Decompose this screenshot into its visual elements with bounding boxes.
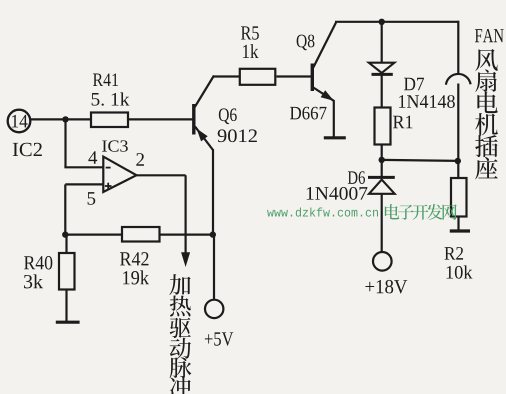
- ground below Q8 emitter: [324, 136, 346, 139]
- pin 4 label: [88, 151, 97, 164]
- resistor R1: [375, 108, 391, 145]
- transistor Q8 (D667 NPN): [311, 64, 314, 92]
- node C junction rail right (+5V / Q6 emitter): [210, 231, 216, 237]
- terminal: +5V supply: [205, 300, 223, 318]
- wire: node A down to IC3 pin 4: [64, 119, 66, 168]
- wire: Q6 emitter to +5V rail: [212, 149, 214, 235]
- wire: top rail down to fan socket: [457, 21, 459, 74]
- label IC2: [13, 143, 42, 156]
- diode D6 1N4007: [381, 160, 383, 177]
- node A junction at pin14 wire: [62, 116, 68, 122]
- label FAN: [475, 29, 504, 42]
- wire: IC3 output to heater-pulse arrow: [136, 174, 186, 176]
- resistor R5: [240, 69, 275, 85]
- node D junction top rail: [379, 19, 385, 25]
- watermark site name: [385, 204, 399, 219]
- label (vertical): fan motor socket chinese: [475, 49, 497, 71]
- transistor Q6 (9012 PNP): [192, 104, 195, 135]
- node E junction R1/D6/R2 branch: [379, 157, 385, 163]
- terminal: IC2 pin 14 circle: [8, 110, 31, 133]
- ground below R2: [450, 229, 470, 232]
- watermark url: [267, 207, 378, 216]
- pin 2 label: [136, 153, 144, 166]
- op-amp IC3: [103, 157, 136, 192]
- resistor R42: [122, 227, 160, 242]
- arrow: heater drive pulse output: [181, 252, 190, 267]
- wire: bottom rail (divider node to +5V node): [65, 234, 215, 236]
- node B junction rail left: [62, 231, 68, 237]
- node F junction right branch: [455, 158, 461, 164]
- pin 5 label: [88, 192, 96, 205]
- wire: R5 to Q8 base: [277, 75, 312, 77]
- wire: node E to fan/R2 branch: [382, 160, 458, 161]
- wire: +5V branch from rail: [213, 235, 215, 300]
- ground below R40: [56, 321, 80, 324]
- resistor R41: [91, 113, 128, 128]
- resistor R40: [65, 235, 67, 253]
- wire: IC3 pin 5 to divider node: [65, 183, 103, 185]
- resistor R2: [451, 178, 467, 217]
- wire: IC2 pin14 to R41: [30, 118, 92, 120]
- diode D7 1N4148: [381, 22, 383, 63]
- wire: socket pin down to R2: [457, 84, 459, 179]
- terminal: +18V supply: [373, 252, 392, 271]
- fan motor socket (connector arc): [446, 74, 471, 85]
- wire: Q6 collector to R5: [214, 75, 239, 77]
- wire: R41 to Q6 base: [128, 118, 193, 120]
- wire: top rail Q8 collector to fan branch: [335, 21, 458, 23]
- label (vertical): heater drive pulse chinese: [169, 274, 190, 295]
